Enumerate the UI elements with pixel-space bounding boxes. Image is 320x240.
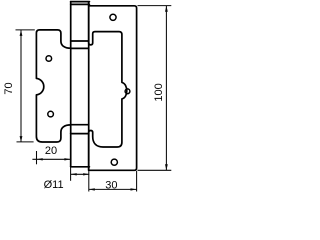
knuckle joint line top lower [71, 47, 89, 49]
svg-text:30: 30 [105, 179, 117, 191]
dimension 100 bottom extension line [138, 169, 172, 171]
left leaf upper screw hole [46, 56, 52, 62]
knuckle joint line bottom lower [71, 133, 89, 135]
svg-text:Ø11: Ø11 [44, 179, 64, 191]
dimension 20 line [32, 158, 70, 160]
dimension 100 top arrowhead [165, 6, 168, 12]
dimension 30 left extension line [88, 171, 90, 192]
barrel right edge / plate left edge [88, 2, 90, 170]
dimension 30 right extension line [136, 171, 138, 192]
dimension 20 left extension line [36, 151, 38, 164]
svg-text:100: 100 [153, 83, 165, 101]
dimension 30 left arrowhead [89, 188, 95, 190]
knuckle joint line bottom upper [71, 124, 89, 126]
barrel cap bottom line [71, 166, 90, 168]
dimension 100 top extension line [138, 5, 172, 7]
dimension 70 line [20, 30, 22, 142]
dimension 30 line [89, 188, 137, 190]
left leaf lower screw hole [48, 111, 54, 117]
dimension 70 top extension line [16, 29, 35, 31]
dimension 70 bottom arrowhead [20, 136, 23, 142]
barrel cap second line [71, 3, 90, 5]
dimension 100 line [165, 6, 167, 171]
right plate upper screw hole [110, 14, 116, 20]
right plate outline [89, 6, 137, 171]
svg-text:20: 20 [45, 145, 57, 157]
left leaf outline [36, 30, 70, 142]
barrel left extension line [70, 168, 72, 181]
right plate lower screw hole [111, 159, 117, 165]
right plate cutout with knuckle slot [89, 2, 127, 170]
dimension diameter 11 line [71, 173, 90, 175]
dimension 30 right arrowhead [131, 188, 137, 190]
dimension diameter 11 right arrowhead [83, 173, 89, 175]
cutout tab screw hole [125, 89, 130, 94]
knuckle joint line top upper [71, 40, 89, 42]
barrel left edge [70, 2, 72, 167]
dimension 70 bottom extension line [17, 141, 34, 143]
barrel cap top line [71, 1, 90, 3]
dimension 70 top arrowhead [20, 30, 23, 36]
dimension 20 right arrowhead [64, 158, 70, 160]
dimension diameter 11 left arrowhead [71, 173, 77, 175]
dimension 20 left arrowhead [37, 158, 43, 160]
svg-text:70: 70 [3, 82, 15, 94]
dimension 100 bottom arrowhead [165, 164, 168, 170]
